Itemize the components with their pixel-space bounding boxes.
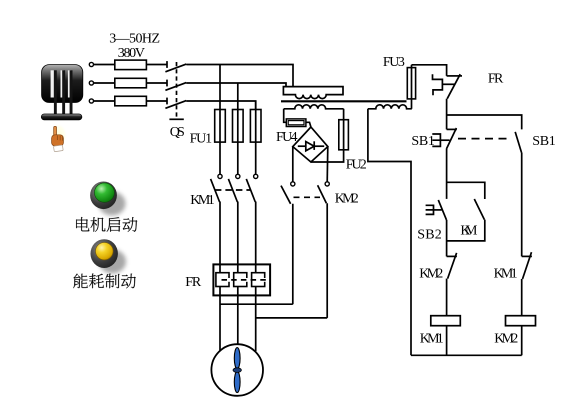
- motor propeller blade top: [234, 348, 240, 369]
- switch QS pole 1 fixed contact: [166, 61, 168, 68]
- thermal contact FR detector element: [433, 74, 443, 95]
- hand cursor finger: [54, 126, 57, 137]
- wire FU4 to bridge top: [306, 122, 311, 127]
- svg-text:KM1: KM1: [190, 193, 215, 208]
- contact KM1 NC blade: [523, 252, 532, 279]
- contactor KM1 main pole 1 blade: [211, 179, 220, 202]
- transformer T primary winding: [283, 87, 343, 99]
- svg-text:SB2: SB2: [417, 227, 442, 242]
- brush graphic base: [41, 114, 82, 120]
- source box phase 2: [115, 78, 147, 88]
- wire coil KM1 to bottom rail: [446, 326, 448, 356]
- wire braking junction U phase: [220, 303, 293, 305]
- motor propeller hub: [233, 368, 241, 373]
- wire secondary1 right to FU2: [343, 109, 345, 120]
- transformer T secondary winding 2: [368, 105, 412, 109]
- motor propeller blade bottom: [234, 371, 240, 392]
- wire phase 2 through FU1 down to KM1: [237, 83, 239, 174]
- wire L3 terminal to source box: [94, 100, 115, 102]
- fuse FU1 pole 2 body: [233, 110, 244, 143]
- hand cursor cuff: [54, 145, 64, 152]
- switch QS linkage dashed: [176, 62, 178, 119]
- thermal contact FR fixed tick: [447, 75, 462, 77]
- motor M body: [211, 344, 263, 396]
- wire L1 terminal to source box: [94, 64, 115, 66]
- brush graphic rods: [54, 70, 73, 114]
- wire control left rail: [368, 109, 411, 355]
- label dynamic brake chinese: [73, 274, 136, 289]
- svg-text:KM2: KM2: [335, 192, 359, 207]
- contactor KM1 main linkage dashed: [215, 189, 251, 191]
- wire KM2 NC to coil KM1: [446, 279, 448, 316]
- bridge rectifier diode triangle: [306, 142, 314, 151]
- thermal contact FR detector link: [442, 83, 454, 85]
- switch QS pole 3 fixed contact: [166, 98, 168, 105]
- wire phase 1 through FU1 down to KM1: [219, 65, 221, 175]
- hand cursor knuckles: [58, 136, 63, 141]
- button start green dome: [94, 183, 114, 202]
- contactor KM1 main pole 3 blade: [246, 179, 255, 202]
- wire through FU2: [343, 120, 345, 150]
- wire KM2 pole 2 to W junction: [326, 203, 328, 318]
- svg-text:KM2: KM2: [494, 332, 518, 347]
- bridge rectifier diode anode lead: [298, 145, 306, 147]
- pushbutton SB2 NO blade: [438, 200, 446, 220]
- fuse FU3 body: [407, 68, 415, 99]
- wire phase bus 2: [186, 83, 286, 87]
- fuse FU4 inner body: [288, 121, 304, 125]
- fuse FU1 pole 3 body: [250, 110, 261, 143]
- contact KM1 NC fixed tick: [522, 255, 532, 257]
- contact KM2 NC blade: [448, 253, 457, 279]
- svg-text:FR: FR: [185, 275, 202, 290]
- svg-text:FU1: FU1: [190, 132, 213, 147]
- svg-text:KM1: KM1: [494, 267, 518, 282]
- contactor KM2 brake pole 1 terminal: [291, 182, 295, 186]
- switch QS pole 2 fixed contact: [166, 80, 168, 87]
- wire KM1 pole 2 to FR: [237, 202, 239, 273]
- source box phase 3: [115, 96, 147, 106]
- wire KM branch bottom: [447, 220, 485, 241]
- pushbutton SB2 NO actuator link: [434, 209, 442, 211]
- wire FR pole 3 to motor: [255, 287, 257, 352]
- hand cursor fist: [52, 135, 64, 146]
- pushbutton SB1 NC blade: [446, 128, 456, 149]
- pushbutton SB1 NC fixed tick: [447, 128, 457, 130]
- wire source to QS pole 1: [146, 64, 167, 66]
- wire FR contact to SB1: [446, 99, 448, 130]
- svg-text:SB1: SB1: [411, 134, 435, 149]
- brush graphic body: [42, 65, 83, 103]
- wire bridge left DC output: [292, 147, 294, 182]
- svg-text:3—50HZ: 3—50HZ: [109, 32, 160, 47]
- button start bezel: [90, 182, 117, 210]
- wire phase bus 3: [186, 101, 255, 110]
- thermal relay FR heater 2: [234, 273, 247, 287]
- svg-text:QS: QS: [170, 125, 185, 140]
- wire SB1 NO to KM1 NC: [521, 153, 523, 257]
- svg-text:KM2: KM2: [419, 267, 443, 282]
- label supply frequency 3-50HZ: [0, 0, 1, 1]
- wire KM1 pole 3 to FR: [255, 202, 257, 273]
- coil KM1 body: [431, 316, 461, 326]
- transformer T core: [281, 100, 407, 102]
- wire KM2 pole 1 to U junction: [292, 204, 294, 304]
- svg-text:380V: 380V: [118, 46, 145, 61]
- contactor KM2 brake pole 2 terminal: [325, 182, 329, 186]
- transformer T secondary winding 1: [284, 105, 344, 109]
- contactor KM1 main pole 3 terminal: [254, 174, 258, 178]
- wire phase 3 through FU1 down to KM1: [255, 101, 257, 174]
- terminal L2: [89, 81, 93, 85]
- svg-text:SB1: SB1: [532, 134, 556, 149]
- wire KM branch top: [447, 182, 485, 199]
- wire braking junction W phase: [256, 317, 328, 319]
- thermal relay FR heater 1: [216, 273, 229, 287]
- contactor KM2 brake pole 2 blade: [318, 185, 327, 203]
- svg-text:FU2: FU2: [346, 158, 367, 173]
- wire FR pole 1 to motor: [219, 287, 221, 351]
- button brake yellow dome: [96, 243, 114, 260]
- contactor KM1 main pole 1 terminal: [218, 174, 222, 178]
- pushbutton SB1 NC actuator link: [440, 139, 449, 141]
- wire source to QS pole 2: [146, 82, 167, 84]
- switch QS handle bar: [169, 118, 183, 120]
- wire junction to right branch: [447, 115, 522, 129]
- thermal relay FR linkage dashed: [222, 279, 267, 281]
- contact KM2 NC fixed tick: [447, 255, 457, 257]
- wire L2 terminal to source box: [94, 82, 115, 84]
- contact KM auxiliary blade: [474, 199, 484, 220]
- wire bridge right DC output: [326, 147, 329, 182]
- fuse FU2 body: [339, 120, 349, 150]
- wire phase bus 1: [186, 65, 293, 87]
- wire KM1 NC to coil KM2: [521, 279, 523, 316]
- terminal L1: [89, 62, 93, 66]
- fuse FU4 outer body: [286, 119, 306, 127]
- wire secondary1 left to FU4: [284, 109, 287, 123]
- wire FU2 to bridge bottom: [311, 150, 344, 162]
- wire KM1 pole 1 to FR: [219, 202, 221, 273]
- wire FR pole 2 to motor: [237, 287, 239, 345]
- button brake bezel: [91, 239, 118, 268]
- fuse FU1 pole 1 body: [215, 110, 226, 143]
- thermal relay FR heater right-edge gaps: [229, 278, 265, 282]
- switch QS pole 3 blade: [165, 101, 186, 109]
- pushbutton SB1 NO blade: [515, 132, 521, 153]
- button brake shadow: [99, 250, 126, 274]
- source box phase 1: [115, 60, 147, 70]
- wire SB2 to KM2 NC: [446, 220, 448, 257]
- contactor KM2 brake pole 1 blade: [281, 186, 291, 204]
- wire coil KM2 to bottom rail: [521, 326, 523, 356]
- svg-text:FR: FR: [488, 71, 504, 86]
- bridge rectifier VC diamond: [293, 127, 328, 162]
- bridge rectifier diode cathode lead: [314, 145, 324, 147]
- wire FU3 top to FR contact: [412, 65, 447, 76]
- wire through FU3: [411, 65, 413, 109]
- label motor start chinese: [76, 217, 137, 232]
- wire source to QS pole 3: [146, 100, 167, 102]
- svg-text:FU4: FU4: [276, 130, 298, 145]
- wire control bottom rail: [411, 354, 522, 356]
- pushbutton SB1 linkage dashed: [458, 138, 511, 140]
- thermal relay FR heater 3: [252, 273, 265, 287]
- svg-text:KM: KM: [460, 223, 478, 238]
- coil KM2 body: [506, 316, 536, 326]
- terminal L3: [89, 99, 93, 103]
- thermal contact FR blade: [447, 74, 460, 99]
- pushbutton SB2 NO actuator E: [426, 205, 434, 214]
- contactor KM1 main pole 2 terminal: [236, 174, 240, 178]
- brush graphic slots: [51, 70, 72, 97]
- pushbutton SB1 NC actuator E: [432, 134, 440, 146]
- switch QS pole 1 blade: [165, 64, 186, 72]
- wire SB1 NC to SB2: [446, 149, 448, 199]
- thermal relay FR box: [213, 264, 270, 295]
- svg-text:KM1: KM1: [420, 332, 444, 347]
- bridge rectifier diode cathode bar: [313, 141, 315, 150]
- svg-text:FU3: FU3: [383, 55, 405, 70]
- switch QS pole 2 blade: [165, 83, 186, 91]
- contactor KM1 main pole 2 blade: [228, 179, 237, 202]
- button start shadow: [99, 192, 126, 216]
- hand cursor glow: [50, 123, 68, 148]
- contactor KM2 brake linkage dashed: [294, 196, 321, 198]
